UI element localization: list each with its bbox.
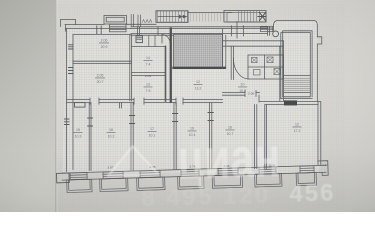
label room C1	[144, 56, 153, 67]
horizontal steps band inside tall room	[284, 78, 310, 90]
bottom wall double line	[62, 165, 326, 180]
staircase 2 arrow blob	[258, 13, 266, 21]
door jambs on partition walls	[88, 113, 214, 127]
window W7	[296, 166, 317, 186]
fixture strip cell dividers	[149, 35, 155, 46]
room C1/C2 divider	[132, 73, 166, 76]
label hall	[238, 83, 247, 94]
label bottom room 5	[226, 126, 235, 137]
hatch block bottom thick wall	[174, 67, 225, 69]
label bottom room 3	[148, 127, 157, 138]
fixtures strip box	[136, 36, 143, 43]
corridor door ticks	[158, 22, 244, 39]
label center room	[194, 80, 203, 91]
right room outer cap	[274, 20, 322, 101]
thick dark wall block	[284, 100, 297, 105]
door jamb ticks	[90, 98, 183, 104]
window W1	[67, 172, 93, 192]
radiator box under wall	[75, 103, 86, 108]
left wall window tick 1	[69, 45, 74, 49]
hall top lines	[223, 41, 284, 46]
hall left wall	[231, 46, 233, 79]
label bottom room 4	[188, 127, 197, 138]
partition wall 5	[255, 105, 257, 169]
staircase 1 center line	[158, 11, 188, 22]
corridor top double line	[131, 27, 268, 29]
room C1 top wall	[132, 45, 166, 47]
corridor bottom double line	[131, 33, 268, 35]
graph paper texture	[57, 4, 345, 209]
corner column circle	[273, 31, 279, 37]
partition wall 4	[210, 103, 212, 169]
hall right wall	[280, 41, 284, 101]
window W6	[254, 167, 282, 187]
left bottom corner block	[57, 173, 70, 183]
label bottom room 2	[107, 128, 116, 139]
small stub below middle wall	[120, 103, 122, 108]
entrance steps ladder symbol	[261, 26, 273, 31]
wall right of hatch	[223, 29, 226, 69]
hall bottom wall with opening	[223, 92, 260, 95]
interior top line of left rooms	[73, 34, 131, 36]
top-left protrusion block	[61, 20, 76, 27]
vertical stubs above corridor left of stair 1	[131, 15, 140, 27]
bathroom door arc	[233, 58, 248, 79]
partition wall 3	[174, 103, 176, 170]
stronger grid inside building	[62, 22, 320, 174]
staircase 2 block	[224, 10, 266, 22]
label room C2	[144, 83, 153, 94]
paper edge line	[55, 0, 56, 212]
partition wall 2	[131, 103, 133, 170]
window W2	[99, 171, 128, 191]
label room A	[99, 39, 109, 50]
watermark word	[177, 125, 282, 191]
window W3	[136, 170, 165, 190]
wall between staircases	[188, 12, 232, 14]
building footprint lighter fill	[62, 22, 320, 174]
interior division line of tall room	[284, 74, 311, 76]
bottom-right room right wall	[318, 102, 321, 166]
left wall window tick 3	[65, 119, 70, 125]
top wall outer line left section	[65, 24, 104, 26]
bathroom fixtures	[252, 58, 258, 63]
thick wall right of center rooms	[166, 29, 171, 101]
top wall door ticks	[97, 26, 101, 34]
window symbol below shaft	[110, 24, 127, 32]
divider wall room A / room B	[73, 61, 131, 63]
left out-of-paper strip	[0, 0, 55, 212]
fixtures strip door arc	[162, 35, 170, 44]
staircase 1 block	[156, 11, 188, 22]
bottom-right room left wall	[265, 105, 267, 169]
window W4	[177, 169, 204, 189]
shaft box above wall	[104, 16, 127, 25]
bathroom block	[248, 55, 284, 79]
corridor end wall	[268, 27, 270, 36]
label bottom-right room	[293, 123, 302, 134]
window W5	[212, 168, 243, 188]
staircase 1 arrow	[179, 15, 183, 19]
top wall second line left section	[66, 27, 132, 29]
left-center partition column	[130, 35, 132, 101]
right bottom corner block	[318, 161, 328, 176]
left wall window tick 2	[69, 68, 74, 74]
right room inner rect	[281, 31, 312, 99]
label bottom room 1	[74, 128, 83, 139]
tiny scribble label left of stair 1	[142, 20, 152, 23]
faint stair continuation	[190, 13, 224, 22]
partition wall 1	[89, 103, 91, 171]
label room B	[95, 74, 105, 85]
bottom-right room top wall	[260, 102, 321, 105]
watermark triangle logo	[107, 146, 159, 176]
